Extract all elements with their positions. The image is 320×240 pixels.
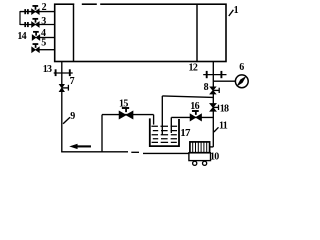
svg-text:16: 16 xyxy=(190,101,199,112)
leader for label 11 xyxy=(214,127,219,132)
svg-text:12: 12 xyxy=(189,63,198,74)
valve V5 xyxy=(32,44,40,53)
svg-text:8: 8 xyxy=(204,82,209,93)
svg-text:11: 11 xyxy=(219,120,228,131)
bottom return pipe xyxy=(61,151,128,153)
vessel left head line xyxy=(73,4,75,61)
pump wheel right xyxy=(203,161,207,165)
svg-text:1: 1 xyxy=(234,5,239,16)
wire: manifold bracket 14 xyxy=(19,11,21,25)
vessel 1 (autoclave body) xyxy=(55,4,226,61)
node: branch line row3 xyxy=(20,24,55,26)
gauge branch line xyxy=(213,80,235,82)
right main pipe xyxy=(212,62,214,87)
pump 10 finned cylinder xyxy=(190,142,210,153)
flange pair on row2 xyxy=(24,9,26,14)
pipe 9 xyxy=(61,92,63,153)
pump 10 inlet elbow xyxy=(210,146,214,148)
svg-text:17: 17 xyxy=(180,127,191,139)
svg-text:9: 9 xyxy=(70,111,75,122)
upper transfer line (to tank dip pipe) xyxy=(162,96,213,98)
valve V15 xyxy=(119,107,133,119)
pressure gauge 6 xyxy=(235,75,248,88)
svg-text:2: 2 xyxy=(42,2,47,13)
flow arrow xyxy=(70,144,90,148)
node: branch line row2 xyxy=(20,11,55,13)
svg-text:3: 3 xyxy=(41,16,46,27)
svg-text:10: 10 xyxy=(210,152,219,163)
valve V2 xyxy=(32,5,40,14)
node: stub row5 xyxy=(39,49,54,51)
flange 12 xyxy=(203,74,226,76)
svg-text:7: 7 xyxy=(70,76,75,87)
valve V3 xyxy=(32,18,40,27)
valve V8 xyxy=(210,87,216,94)
water hatching xyxy=(151,126,177,142)
vessel right head line xyxy=(196,4,198,61)
top edge scan gaps xyxy=(74,3,100,6)
svg-text:13: 13 xyxy=(43,64,52,75)
wire: dip leg xyxy=(170,117,172,133)
pump wheel left xyxy=(193,161,197,165)
svg-text:14: 14 xyxy=(17,31,26,42)
svg-text:6: 6 xyxy=(239,62,244,73)
node: stub row4 xyxy=(40,37,55,39)
valve V16 xyxy=(190,110,201,121)
wire: dip pipe xyxy=(161,96,163,135)
wire: vessel left bottom stub xyxy=(61,62,63,85)
valve V4 xyxy=(32,31,40,40)
valve V18 xyxy=(210,104,216,112)
gauge needle xyxy=(238,77,246,86)
valve V7 xyxy=(59,84,64,91)
valve-16 branch line xyxy=(171,116,213,118)
leader for label 9 xyxy=(63,117,70,124)
svg-text:18: 18 xyxy=(220,104,229,115)
flange 13 xyxy=(54,72,73,74)
tank 17 (open water tank) xyxy=(150,118,179,146)
wire: dip leg into tank xyxy=(153,115,155,125)
wire: drop leg to bottom pipe xyxy=(101,115,103,152)
flange pair on row3 xyxy=(24,22,26,27)
valve-15 branch line xyxy=(102,114,154,116)
svg-text:15: 15 xyxy=(119,98,128,109)
pump 10 base xyxy=(189,153,211,161)
leader for label 1 xyxy=(229,10,234,16)
svg-text:5: 5 xyxy=(41,38,46,49)
